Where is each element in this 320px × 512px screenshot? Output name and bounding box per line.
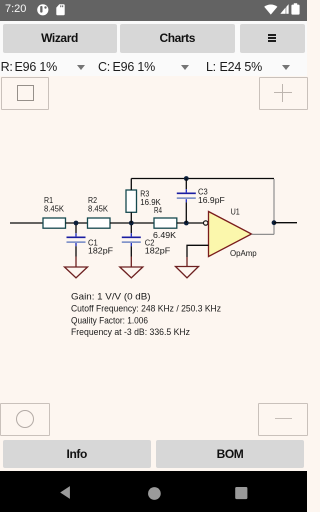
capacitor C3 leads: [185, 179, 187, 190]
capacitor C1 leads: [75, 225, 77, 233]
svg-text:8.45K: 8.45K: [88, 204, 108, 214]
wire plus input: [187, 245, 209, 257]
svg-text:182pF: 182pF: [145, 246, 171, 256]
node top of C3: [184, 176, 189, 181]
svg-text:U1: U1: [231, 207, 240, 217]
battery icon: [291, 3, 300, 15]
ground at op-amp: [176, 267, 199, 278]
feedback right vertical wire: [273, 179, 275, 234]
feedback top rail: [131, 178, 274, 180]
bottom-right minus button: [258, 403, 308, 436]
svg-text:Cutoff Frequency: 248 KHz / 25: Cutoff Frequency: 248 KHz / 250.3 KHz: [71, 303, 221, 313]
op-amp U1 triangle: [209, 212, 252, 257]
wire R3 top to rail: [130, 179, 132, 191]
signal icon: [280, 4, 289, 14]
svg-text:Quality Factor: 1.006: Quality Factor: 1.006: [71, 316, 148, 326]
output wire: [274, 222, 297, 224]
wire input: [10, 222, 43, 224]
svg-text:OpAmp: OpAmp: [230, 248, 257, 258]
status icon sim: [56, 4, 65, 16]
feedback bottom wire to output: [252, 233, 275, 235]
resistor R3 vertical: [126, 190, 137, 212]
top-right plus button: [259, 77, 308, 110]
menu button: [240, 24, 306, 53]
svg-text:6.49K: 6.49K: [153, 230, 176, 240]
BOM button: [156, 440, 304, 468]
wifi icon: [264, 4, 278, 15]
op-amp U1 input bubble: [204, 221, 208, 225]
capacitor C2 leads: [130, 225, 132, 233]
resistor R4: [154, 218, 177, 228]
wire R2 to R4: [110, 222, 154, 224]
nav back: [60, 486, 70, 499]
wire R1 to R2: [66, 222, 88, 224]
wire R3 bottom to node B: [130, 212, 132, 223]
node B: [129, 221, 134, 226]
capacitor C2 plates: [122, 236, 141, 238]
capacitor C1 plates: [67, 236, 86, 238]
toolbar background: [0, 21, 307, 76]
Charts button: [120, 24, 235, 53]
wire R4 to opamp input: [177, 222, 204, 224]
svg-text:Gain: 1 V/V (0 dB): Gain: 1 V/V (0 dB): [71, 291, 151, 301]
ground under C1: [65, 267, 88, 278]
status icon circle: [37, 4, 49, 16]
node A: [74, 221, 79, 226]
ground under C2: [120, 267, 143, 278]
capacitor C3 plates: [177, 192, 196, 194]
svg-text:Frequency at -3 dB: 336.5 KHz: Frequency at -3 dB: 336.5 KHz: [71, 327, 190, 337]
resistor R1: [43, 218, 66, 228]
svg-text:8.45K: 8.45K: [44, 204, 64, 214]
dropdown row: [1, 60, 13, 74]
node C: [184, 221, 189, 226]
svg-text:R4: R4: [154, 205, 162, 215]
Wizard button: [3, 24, 117, 53]
nav recents: [235, 487, 248, 500]
svg-text:16.9pF: 16.9pF: [198, 195, 225, 205]
status bar: [0, 0, 307, 21]
nav home: [148, 487, 161, 500]
resistor R2: [88, 218, 111, 228]
top-left fit button: [1, 77, 50, 110]
svg-text:182pF: 182pF: [88, 246, 113, 256]
output node: [272, 220, 277, 225]
bottom-left circle button: [0, 403, 50, 436]
nav bar: [0, 471, 307, 512]
Info button: [3, 440, 151, 468]
